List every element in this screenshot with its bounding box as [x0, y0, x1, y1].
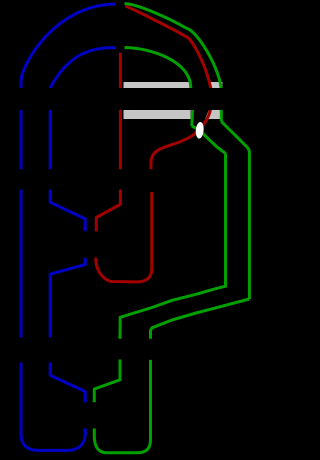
wire green outer diagonal to right vertical: [221, 122, 249, 300]
wire blue left vertical segment 4 and bottom U: [21, 363, 85, 451]
wire blue mid vertical segment: [49, 108, 52, 169]
wire blue left vertical segment 2: [20, 108, 23, 169]
wire green mid vertical and long diagonal up right: [120, 153, 226, 338]
hidden band mask across picture between bars: [0, 88, 228, 110]
wire green long diagonal right to mid: [151, 299, 250, 339]
wire green outer top arc down right side: [125, 4, 222, 122]
wire green inner vertical at bars: [191, 88, 193, 126]
wire red top arc descending right: [125, 6, 211, 169]
wire red bottom U and right vertical: [96, 192, 152, 282]
band lower gray bar left piece: [124, 110, 191, 119]
wire green inner top arc: [125, 48, 191, 88]
wire green bottom right vertical and bottom U: [94, 360, 150, 453]
wire green lower zigzag: [94, 360, 120, 403]
wire green inner diagonal from capsule area: [192, 126, 226, 153]
marker white capsule: [195, 122, 204, 139]
wire blue inner top arc: [50, 48, 116, 92]
wire red zigzag to lower left vertical: [96, 190, 120, 232]
wire blue left vertical segment 3: [20, 190, 23, 338]
wire red left vertical: [119, 53, 122, 169]
band lower gray bar right piece: [205, 110, 222, 119]
band upper gray bar right piece: [208, 82, 222, 88]
band upper gray bar left piece: [124, 82, 191, 88]
wire blue lower zigzag: [50, 363, 85, 403]
wire blue mid zigzag upper: [50, 190, 85, 232]
wire blue outer top arc into left vertical: [21, 4, 116, 92]
wire blue mid zigzag lower: [50, 258, 85, 338]
